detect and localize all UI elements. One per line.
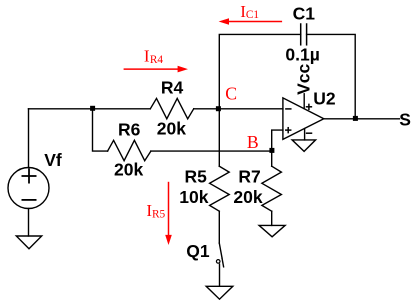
svg-text:20k: 20k: [114, 159, 143, 179]
svg-text:R4: R4: [161, 78, 184, 98]
junction node B dot: [269, 148, 274, 153]
svg-text:C1: C1: [293, 4, 316, 24]
svg-text:C: C: [225, 83, 237, 103]
resistor R5: [210, 166, 230, 211]
voltage source Vf: [8, 168, 49, 209]
wire: main top wire from source to R4: [29, 108, 151, 110]
wire: top feedback left segment: [219, 34, 300, 108]
wire: R4 to op-amp inverting input: [194, 108, 283, 110]
capacitor C1: [301, 24, 307, 45]
wire: node B up to op-amp plus input: [272, 130, 283, 151]
op-amp V+ plus mark: [307, 104, 312, 109]
current arrow I_C1: [219, 18, 283, 25]
svg-text:Q1: Q1: [186, 241, 210, 261]
resistor R6: [108, 140, 151, 160]
svg-text:10k: 10k: [179, 187, 208, 207]
svg-text:C1: C1: [246, 9, 259, 21]
junction node C dot: [216, 106, 221, 111]
svg-text:20k: 20k: [157, 118, 186, 138]
wire: node C down to R5: [218, 109, 220, 166]
wire: switch to ground: [219, 264, 221, 286]
ground (below Q1): [206, 286, 233, 299]
op-amp non-inverting input mark: [286, 128, 291, 133]
op-amp U2 triangle: [283, 98, 324, 139]
resistor R4: [150, 98, 193, 118]
op-amp inverting input mark: [286, 108, 291, 110]
current arrow I_R4: [124, 66, 188, 73]
svg-text:Vcc: Vcc: [293, 63, 313, 94]
ground (below R7): [259, 225, 285, 236]
current arrow I_R5: [165, 182, 172, 245]
svg-text:R7: R7: [238, 166, 260, 186]
wire: R5 bottom to switch: [218, 211, 220, 243]
svg-text:R6: R6: [118, 119, 141, 139]
svg-text:U2: U2: [313, 89, 336, 109]
ground (op-amp V-): [292, 140, 316, 152]
svg-text:R4: R4: [150, 54, 164, 66]
svg-text:B: B: [247, 132, 259, 152]
resistor R7: [262, 166, 282, 211]
switch Q1: [219, 243, 222, 258]
wire: R6 to node B: [151, 150, 272, 152]
wire: top feedback right segment: [307, 34, 356, 118]
junction dot (output): [353, 116, 358, 121]
wire: source to ground: [28, 209, 30, 237]
svg-text:R5: R5: [152, 208, 166, 220]
ground (below Vf): [16, 236, 41, 249]
junction dot (left): [90, 106, 95, 111]
svg-text:20k: 20k: [233, 187, 262, 207]
wire: source vertical: [28, 109, 30, 168]
op-amp V- pin: [304, 129, 306, 140]
svg-text:0.1µ: 0.1µ: [285, 45, 319, 65]
op-amp V+ pin: [303, 94, 305, 109]
op-amp V- minus mark: [307, 132, 312, 134]
wire: R7 to ground: [271, 211, 273, 225]
svg-text:Vf: Vf: [44, 150, 62, 170]
wire: op-amp output to S: [324, 118, 400, 120]
svg-text:S: S: [399, 109, 411, 129]
wire: node B down to R7: [271, 151, 273, 166]
wire: junction down to R6: [93, 109, 108, 151]
svg-text:R5: R5: [185, 166, 208, 186]
